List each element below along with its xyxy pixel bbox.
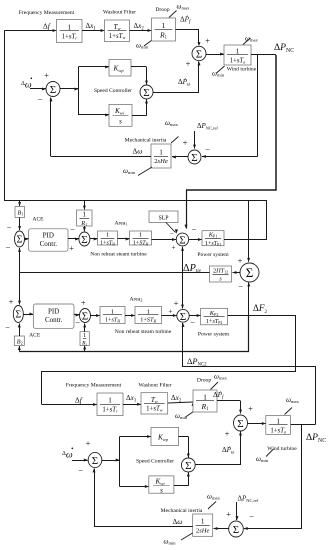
svg-text:KP2: KP2 (209, 310, 219, 317)
svg-text:−: − (78, 465, 83, 475)
svg-text:1+sTP1: 1+sTP1 (205, 241, 221, 247)
svg-text:−: − (5, 322, 10, 332)
svg-text:Mechanical inertia: Mechanical inertia (125, 138, 167, 144)
svg-text:+: + (226, 509, 231, 519)
svg-text:KP1: KP1 (208, 232, 218, 239)
svg-text:−: − (192, 224, 197, 234)
svg-text:Speed Controller: Speed Controller (94, 88, 132, 94)
svg-text:−: − (70, 224, 75, 234)
svg-text:Non reheat steam turbine: Non reheat steam turbine (90, 252, 147, 258)
svg-text:Σ: Σ (82, 310, 88, 322)
svg-text:+: + (44, 70, 49, 80)
svg-text:−: − (249, 511, 254, 521)
svg-text:−: − (190, 317, 195, 327)
svg-text:Frequency Measurement: Frequency Measurement (19, 10, 75, 16)
svg-text:R2: R2 (81, 341, 87, 347)
svg-text:PID: PID (48, 308, 59, 316)
svg-text:2sHe: 2sHe (154, 158, 168, 165)
svg-text:1+sTw: 1+sTw (109, 33, 126, 40)
svg-text:1+sTP2: 1+sTP2 (206, 319, 222, 325)
svg-text:Σ: Σ (237, 418, 243, 430)
svg-text:−: − (170, 229, 174, 237)
svg-text:−: − (205, 144, 210, 154)
svg-text:Droop: Droop (155, 7, 169, 13)
svg-text:Speed Controller: Speed Controller (136, 459, 174, 465)
svg-text:ACE: ACE (29, 333, 41, 339)
svg-text:+: + (69, 243, 74, 253)
svg-text:1: 1 (159, 148, 163, 156)
svg-text:Σ: Σ (17, 235, 23, 246)
svg-text:+: + (168, 307, 172, 316)
svg-text:−: − (38, 94, 43, 104)
svg-text:Washout Filter: Washout Filter (103, 10, 136, 16)
svg-text:−: − (75, 317, 80, 327)
svg-text:Δω: Δω (173, 517, 183, 526)
svg-text:+: + (186, 58, 191, 68)
svg-text:1: 1 (201, 518, 205, 526)
svg-text:s: s (119, 118, 122, 126)
svg-text:+: + (225, 428, 230, 438)
svg-text:Power system: Power system (197, 252, 229, 258)
svg-text:Non reheat steam turbine: Non reheat steam turbine (115, 329, 172, 335)
svg-text:1+sTr: 1+sTr (62, 33, 78, 40)
svg-text:1: 1 (139, 231, 142, 238)
svg-text:s: s (160, 487, 163, 495)
svg-text:Mechanical inertia: Mechanical inertia (161, 508, 203, 514)
svg-text:Σ: Σ (185, 460, 191, 472)
svg-text:1: 1 (162, 21, 166, 30)
svg-text:Σ: Σ (191, 152, 197, 164)
svg-text:Σ: Σ (196, 48, 202, 60)
svg-text:−: − (238, 281, 243, 291)
svg-text:Frequency Measurement: Frequency Measurement (66, 383, 122, 389)
svg-text:Contr.: Contr. (40, 240, 58, 248)
svg-text:Σ: Σ (179, 234, 185, 246)
svg-text:+: + (183, 137, 188, 147)
svg-text:Σ: Σ (81, 234, 87, 246)
svg-text:1+sTH: 1+sTH (100, 241, 115, 247)
svg-text:+: + (174, 298, 179, 308)
svg-text:Wind turbine: Wind turbine (227, 67, 257, 73)
svg-text:2sHe: 2sHe (196, 527, 210, 534)
svg-text:Δω: Δω (133, 147, 143, 156)
svg-text:1+sTa: 1+sTa (270, 427, 286, 434)
svg-text:+: + (248, 403, 253, 413)
svg-text:−: − (7, 222, 12, 232)
svg-text:Power system: Power system (198, 332, 230, 338)
svg-text:+: + (171, 243, 175, 252)
svg-text:1+sTa: 1+sTa (230, 57, 246, 64)
svg-text:1: 1 (83, 211, 86, 218)
svg-text:R1: R1 (80, 220, 87, 227)
svg-text:Contr.: Contr. (45, 316, 63, 324)
svg-text:1: 1 (203, 392, 207, 401)
svg-text:Washout Filter: Washout Filter (139, 383, 172, 389)
svg-text:Δf: Δf (43, 22, 51, 31)
svg-text:ACE: ACE (32, 217, 44, 223)
svg-text:Σ: Σ (50, 84, 56, 96)
svg-text:Σ: Σ (246, 265, 254, 280)
svg-text:+: + (205, 35, 210, 45)
svg-text:+: + (238, 255, 243, 265)
svg-text:Area2: Area2 (130, 297, 143, 303)
svg-text:Σ: Σ (143, 87, 149, 99)
svg-text:SLP: SLP (159, 216, 169, 222)
svg-text:1+sTr: 1+sTr (102, 407, 118, 414)
svg-text:−: − (6, 242, 11, 252)
svg-text:1+STH: 1+STH (133, 241, 149, 247)
svg-text:+: + (81, 297, 86, 307)
svg-text:Σ: Σ (15, 310, 21, 321)
svg-text:Σ: Σ (233, 524, 239, 536)
svg-text:Δf: Δf (75, 396, 83, 405)
svg-text:PID: PID (43, 232, 54, 240)
svg-text:1: 1 (106, 231, 109, 238)
svg-text:+: + (86, 438, 91, 448)
svg-text:Σ: Σ (180, 311, 186, 323)
svg-text:Droop: Droop (197, 378, 211, 384)
svg-text:Σ: Σ (92, 455, 98, 467)
svg-text:+: + (9, 296, 14, 306)
svg-text:Area1: Area1 (115, 221, 128, 227)
svg-text:1+sTw: 1+sTw (146, 406, 163, 413)
svg-text:1: 1 (108, 397, 112, 405)
